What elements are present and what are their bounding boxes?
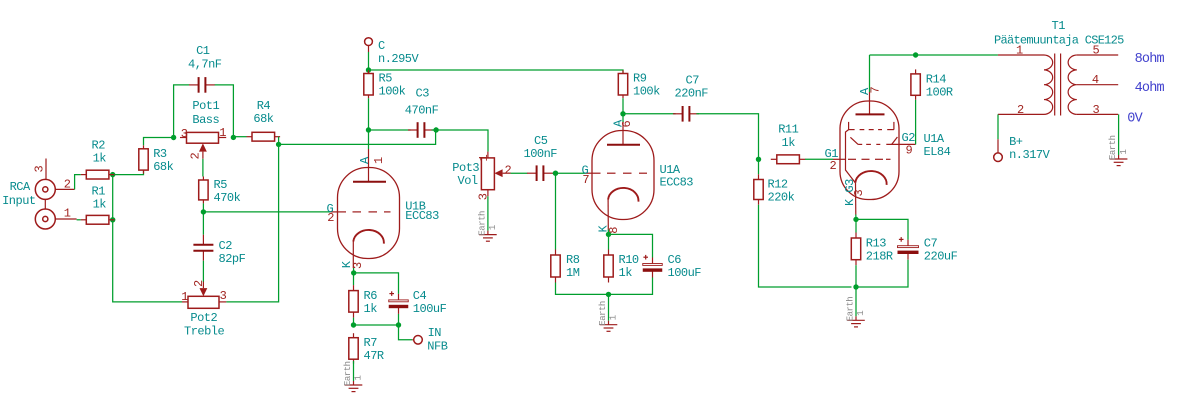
wire grid node to U1A grid pin (556, 172, 586, 174)
wire anode node to C7 (623, 113, 676, 115)
wire Pot1 wiper to R5 (202, 159, 204, 177)
svg-text:C: C (378, 39, 385, 53)
capacitor C3 470nF (405, 86, 439, 137)
svg-text:2: 2 (1017, 103, 1024, 117)
wire R3 top to Pot1 node (144, 138, 174, 146)
junction node EL84 cathode (853, 217, 858, 222)
resistor R14 100R (911, 69, 953, 99)
resistor R5 470k (199, 177, 241, 206)
svg-text:R6: R6 (364, 289, 378, 303)
svg-text:1M: 1M (566, 266, 580, 280)
svg-text:1k: 1k (93, 198, 107, 212)
resistor R11 1k (771, 123, 806, 164)
svg-text:2: 2 (327, 211, 334, 225)
svg-text:C4: C4 (413, 289, 427, 303)
wire anode node to U1B anode pin (368, 130, 370, 149)
svg-text:2: 2 (830, 159, 837, 173)
svg-text:Bass: Bass (192, 113, 219, 127)
svg-text:8ohm: 8ohm (1135, 52, 1165, 67)
wire R4 node to C3 node (279, 130, 436, 144)
connector IN NFB (412, 326, 447, 354)
wire C7 bottom to ground rail (856, 260, 908, 287)
svg-text:EL84: EL84 (924, 145, 951, 159)
junction node U1B cathode (351, 270, 356, 275)
svg-text:68k: 68k (253, 112, 273, 126)
wire node down to NFB (399, 325, 413, 340)
svg-text:Earth: Earth (598, 301, 608, 326)
junction node C1 left / Pot1 pin3 (171, 135, 176, 140)
svg-text:n.295V: n.295V (378, 52, 420, 66)
wire anode node to C3 (369, 129, 411, 131)
grid pin of U1A (582, 164, 648, 188)
svg-text:3: 3 (1093, 103, 1100, 117)
svg-text:1k: 1k (619, 266, 633, 280)
svg-text:ECC83: ECC83 (660, 175, 694, 189)
svg-text:R1: R1 (92, 184, 106, 198)
wire Pot1 node to R4 (233, 136, 246, 138)
tube U1B ECC83 (triode) (338, 168, 440, 259)
junction node C3 output (433, 127, 438, 132)
svg-text:C7: C7 (686, 73, 700, 87)
svg-text:1k: 1k (782, 136, 796, 150)
power flag C n.295V (365, 38, 420, 66)
svg-text:R5: R5 (379, 72, 393, 86)
svg-text:47R: 47R (364, 349, 384, 363)
svg-text:220k: 220k (768, 191, 795, 205)
potentiometer Pot2 Treble (182, 296, 226, 338)
svg-text:1: 1 (488, 225, 498, 230)
junction node U1A anode (620, 111, 625, 116)
resistor R9 100k (618, 70, 660, 98)
svg-text:C1: C1 (196, 44, 210, 58)
wire cathode node to C4 (354, 273, 399, 294)
svg-text:4: 4 (1092, 73, 1099, 87)
svg-text:1: 1 (1119, 150, 1129, 155)
wire grid node down to C2 (202, 212, 204, 235)
pin 2 of RCA connector (55, 177, 74, 191)
wire R8 bottom to ground rail (556, 283, 609, 295)
capacitor C1 4,7nF (188, 44, 222, 93)
svg-text:Pot1: Pot1 (192, 99, 219, 113)
screen grid G2 of EL84 (850, 131, 915, 157)
svg-text:220nF: 220nF (675, 86, 709, 100)
junction node U1A grid (553, 171, 558, 176)
tube U1A ECC83 (triode) (592, 131, 693, 220)
svg-text:C3: C3 (416, 86, 430, 100)
tube U1A EL84 (pentode) (840, 101, 951, 200)
resistor R3 68k (139, 145, 174, 174)
resistor R4 68k (247, 99, 281, 141)
svg-text:Treble: Treble (184, 325, 225, 339)
svg-text:9: 9 (906, 143, 913, 157)
svg-text:82pF: 82pF (219, 252, 246, 266)
svg-text:R12: R12 (768, 178, 788, 192)
svg-text:218R: 218R (866, 250, 893, 264)
potentiometer Pot1 Bass (180, 99, 226, 143)
svg-text:Earth: Earth (1108, 135, 1118, 160)
junction node R6/R7 (351, 322, 356, 327)
svg-text:1k: 1k (364, 302, 378, 316)
internal G3-cathode connection of EL84 (846, 130, 856, 183)
wire R11 to EL84 G1 (805, 158, 833, 160)
junction node Pot1 pin1 / R4 (231, 135, 236, 140)
ground Earth (below Pot3) (478, 196, 499, 241)
wire C5 right to grid node (553, 172, 556, 174)
wire C1 right down to Pot1 pin1 node (215, 85, 234, 137)
power connector B+ n.317V (994, 135, 1051, 162)
suppressor grid G3 of EL84 (849, 122, 894, 130)
wire anode node to U1A anode pin (622, 114, 624, 122)
svg-text:2: 2 (505, 164, 512, 178)
wire R5 bottom to grid node (202, 203, 204, 212)
svg-text:1: 1 (354, 376, 364, 381)
svg-text:7: 7 (869, 87, 883, 94)
wire C3 right to node (431, 129, 436, 131)
resistor R5 100k (364, 70, 406, 98)
svg-text:R3: R3 (153, 147, 167, 161)
wiper arrow pin 2 of Pot3 (494, 169, 510, 177)
svg-text:C7: C7 (924, 237, 938, 251)
wire node down to R12 (758, 159, 760, 174)
junction node preamp B+ rail (366, 67, 371, 72)
ground Earth (below R13) (846, 287, 867, 327)
svg-text:R4: R4 (257, 99, 271, 113)
svg-text:4,7nF: 4,7nF (188, 57, 222, 71)
svg-text:ECC83: ECC83 (405, 209, 439, 223)
wire R4 right bend down (278, 137, 280, 145)
svg-text:C6: C6 (668, 253, 682, 267)
wire cathode node to C6 (609, 234, 653, 257)
cathode of U1B (340, 230, 384, 269)
svg-text:Input: Input (2, 194, 36, 208)
svg-text:100uF: 100uF (413, 302, 447, 316)
svg-text:T1: T1 (1052, 19, 1066, 33)
wire B+ rail to R9 (369, 70, 624, 74)
resistor R7 47R (349, 333, 384, 364)
svg-text:100R: 100R (926, 86, 953, 100)
capacitor C5 100nF (524, 134, 558, 181)
anode pin of U1B (353, 149, 386, 182)
svg-text:R13: R13 (866, 237, 886, 251)
anode pin of EL84 (856, 87, 885, 115)
svg-text:1k: 1k (93, 152, 107, 166)
junction node R4 output (276, 142, 281, 147)
svg-text:470k: 470k (214, 191, 241, 205)
junction node U1B grid (201, 209, 206, 214)
resistor R6 1k (349, 285, 377, 318)
svg-text:Vol: Vol (458, 174, 478, 188)
wire rail down to EL84 anode (869, 55, 871, 92)
wire grid node to U1B grid pin (203, 211, 330, 213)
svg-text:100k: 100k (633, 85, 660, 99)
svg-text:220uF: 220uF (924, 250, 958, 264)
svg-text:A: A (358, 156, 372, 164)
wire C7 right to R11 node (696, 114, 758, 160)
anode pin of U1A (607, 119, 640, 145)
wire cathode node to R6 (353, 273, 355, 285)
junction node U1A cathode (606, 232, 611, 237)
capacitor C2 82pF (193, 235, 245, 266)
junction node C4 bottom (396, 322, 401, 327)
svg-text:100uF: 100uF (668, 266, 702, 280)
svg-text:R2: R2 (92, 138, 106, 152)
wire C2 bottom to Pot2 wiper (202, 261, 204, 282)
junction node U1B anode (366, 127, 371, 132)
svg-text:R5: R5 (214, 178, 228, 192)
svg-text:1: 1 (477, 155, 491, 162)
svg-text:B+: B+ (1009, 135, 1023, 149)
wire C6 bottom to ground rail (609, 278, 653, 295)
wire R1 node down to Pot2 pin1 (113, 175, 182, 302)
svg-text:1: 1 (64, 207, 71, 221)
wire RCA pin2 to R2 (75, 175, 81, 190)
resistor R2 1k (81, 138, 115, 179)
potentiometer Pot3 Vol (452, 152, 494, 197)
wire R2 to R3 bottom (113, 170, 144, 175)
svg-text:3: 3 (32, 166, 46, 173)
svg-text:Earth: Earth (343, 361, 353, 386)
wire R6 bottom to node (353, 318, 355, 325)
wire U1B cathode to node (353, 268, 355, 273)
capacitor C4 100uF (polarized) (389, 289, 447, 316)
wire R4 node down to Pot2 pin3 (226, 144, 278, 302)
wire R14 bottom to EL84 G2 (915, 100, 917, 145)
svg-text:n.317V: n.317V (1009, 148, 1051, 162)
svg-text:1: 1 (219, 126, 226, 140)
transformer T1 Paatemuuntaja CSE125 (994, 19, 1124, 115)
resistor R13 218R (851, 233, 893, 266)
junction node R2/R1 top (110, 172, 115, 177)
svg-text:3: 3 (852, 190, 866, 197)
wire R9 bottom to anode node (622, 98, 624, 114)
svg-text:Pot2: Pot2 (190, 311, 217, 325)
grid pin of U1B (327, 202, 391, 225)
wire C4 bottom to node (398, 314, 400, 325)
svg-text:1: 1 (1016, 43, 1023, 57)
wire Pot3 wiper to C5 (511, 172, 528, 174)
wire grid node down to R8 (555, 173, 557, 249)
wire cathode node to C7 (856, 219, 908, 239)
svg-text:Earth: Earth (846, 297, 856, 322)
control grid G1 of EL84 (825, 147, 891, 173)
capacitor C6 100uF (polarized) (643, 253, 702, 280)
pin 3 of RCA connector (32, 159, 46, 180)
svg-text:R8: R8 (566, 253, 580, 267)
svg-text:100k: 100k (379, 85, 406, 99)
svg-text:4ohm: 4ohm (1135, 81, 1165, 96)
junction node ground rail R10 (606, 292, 611, 297)
capacitor C7 220nF (673, 73, 708, 121)
svg-text:3: 3 (220, 289, 227, 303)
svg-text:1: 1 (609, 315, 619, 320)
wiper arrow pin 2 of Pot1 (199, 143, 207, 158)
wire EL84 cathode to node (855, 215, 857, 220)
svg-text:1: 1 (181, 290, 188, 304)
junction node R14 top (913, 52, 918, 57)
svg-text:7: 7 (582, 173, 589, 187)
svg-text:Earth: Earth (478, 211, 488, 236)
connector RCA Input (coax jacks) (2, 179, 55, 229)
resistor R8 1M (551, 250, 580, 283)
svg-text:R14: R14 (926, 73, 946, 87)
svg-text:1: 1 (856, 311, 866, 316)
svg-text:Pot3: Pot3 (452, 161, 479, 175)
wire RCA pin1 to R1 (77, 219, 81, 221)
wire R5 bottom to anode node (368, 98, 370, 130)
resistor R10 1k (604, 250, 639, 283)
wire cathode node to R13 (855, 219, 857, 232)
wire C3 node to Pot3 pin1 (436, 130, 488, 152)
ground Earth (below R10) (598, 294, 619, 331)
svg-text:R10: R10 (619, 253, 639, 267)
svg-text:470nF: 470nF (405, 103, 439, 117)
resistor R1 1k (81, 184, 115, 224)
svg-text:R11: R11 (778, 123, 798, 137)
wire R12 bottom to ground rail (759, 205, 852, 287)
wire cathode node to R10 (608, 234, 610, 249)
wire U1A cathode to node (607, 230, 609, 235)
svg-text:RCA: RCA (10, 180, 31, 194)
svg-text:Päätemuuntaja CSE125: Päätemuuntaja CSE125 (994, 33, 1124, 47)
junction node R1 row (110, 217, 115, 222)
cathode of U1A (596, 188, 638, 234)
svg-text:2: 2 (192, 280, 206, 287)
svg-text:5: 5 (1093, 43, 1100, 57)
junction node ground rail EL84 (853, 284, 858, 289)
capacitor C7 220uF (polarized) (898, 237, 958, 264)
svg-text:C2: C2 (219, 239, 233, 253)
svg-text:1: 1 (372, 157, 386, 164)
svg-text:6: 6 (620, 121, 634, 128)
svg-text:R9: R9 (633, 72, 647, 86)
wire node up to C1 left (174, 85, 190, 138)
svg-text:2: 2 (64, 177, 71, 191)
wire power flag to B+ rail node (368, 52, 370, 70)
wiper arrow pin 2 of Pot2 (200, 282, 208, 297)
svg-text:2: 2 (189, 153, 203, 160)
svg-text:3: 3 (181, 127, 188, 141)
wire T1 pin2 down to B+ (997, 114, 999, 139)
ground Earth (T1 secondary 0V) (1108, 114, 1129, 165)
svg-text:68k: 68k (153, 160, 173, 174)
pin 1 of RCA connector (55, 207, 76, 221)
wire output B+ rail (870, 54, 998, 56)
junction node R11/R12 (756, 157, 761, 162)
svg-text:100nF: 100nF (524, 147, 558, 161)
ground Earth (below R7) (343, 361, 364, 392)
resistor R12 220k (754, 174, 795, 204)
svg-text:IN: IN (428, 326, 442, 340)
cathode K G3 of EL84 (843, 171, 887, 214)
svg-text:0V: 0V (1127, 111, 1143, 126)
wire R6 node to C4 node (354, 324, 399, 326)
wire R13 bottom to ground rail (855, 265, 857, 287)
svg-text:3: 3 (351, 262, 365, 269)
svg-text:R7: R7 (364, 336, 378, 350)
svg-text:NFB: NFB (427, 339, 447, 353)
